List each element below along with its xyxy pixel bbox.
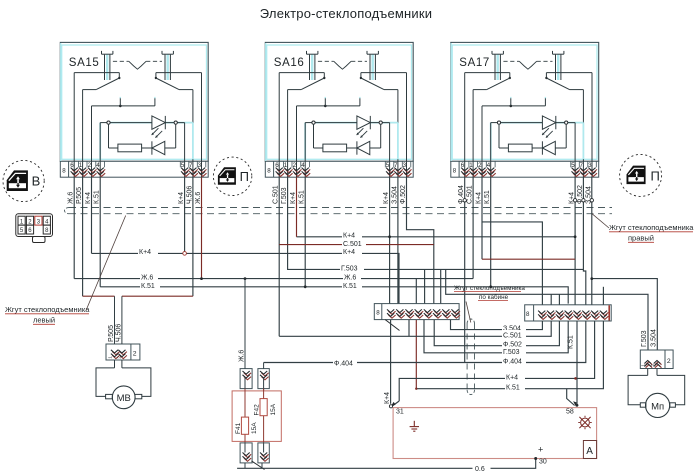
svg-text:А: А [586,446,593,457]
wire С.501 [279,321,551,336]
wire Ф.502 [434,320,559,346]
wire SA16 pin7 down to left strip pin2 [397,177,399,303]
svg-text:Р.505: Р.505 [76,187,83,204]
svg-text:К+4: К+4 [384,392,391,404]
svg-text:8: 8 [267,168,271,175]
svg-text:К+4: К+4 [343,249,355,256]
red harness label left [5,305,90,325]
switch SA16 [265,42,413,177]
red node circle SA15 pin5 on К+4 bus [183,252,187,256]
wire SA17 pin4 К.51 down [490,177,492,287]
motor МВ [96,360,151,409]
wire Г.503 lower [424,320,568,353]
fuse F41 [241,417,248,434]
bundle wires between strips [264,320,604,406]
wire SA17 pin3 З.504 down to right strip pin7 [591,177,593,306]
svg-text:Ф.502: Ф.502 [400,185,407,204]
svg-text:30: 30 [539,459,547,466]
svg-text:15А: 15А [251,422,258,434]
svg-text:15А: 15А [270,403,277,415]
svg-text:С.501: С.501 [273,185,280,204]
wire SA15 pin3 Ж.6 red down [201,177,203,278]
unit A box [393,408,597,466]
wire SA17 pin6 Ф.404 long down [464,177,466,362]
red harness label right [609,223,694,243]
ground symbol [410,421,419,431]
window icon circle P right [620,154,662,196]
lower connector cells [240,443,269,463]
svg-text:З.504: З.504 [651,329,658,347]
cab connector strip left [374,304,460,331]
wire Г.503 branch down at 424.6 [424,269,426,303]
svg-text:К+4: К+4 [343,233,355,240]
stub right strip pin1 up [482,222,542,306]
cab connector strip right [525,305,612,321]
red fuse box [232,391,281,442]
pin numbers and chevrons SA16 [267,162,406,175]
terminal arrowheads [391,402,396,406]
svg-text:К.51: К.51 [141,283,155,290]
svg-text:Г.503: Г.503 [641,330,648,347]
svg-text:К.51: К.51 [94,190,101,204]
stub right strip pin2 up [550,294,552,305]
bus labels on lines [138,231,526,392]
fuse labels [235,403,277,434]
stub right strip pin3 up [558,294,560,305]
svg-text:31: 31 [396,409,404,416]
svg-text:Ф.502: Ф.502 [577,185,584,204]
harness boundary dashed lines [69,208,612,214]
leader left [86,216,126,311]
wire SA15 pin6 Ж.6 down [73,177,75,278]
pin numbers and chevrons SA17 [453,162,592,175]
svg-text:SA15: SA15 [69,57,100,69]
svg-text:по кабине: по кабине [479,293,509,301]
svg-text:Р.505: Р.505 [108,325,115,342]
svg-text:К+4: К+4 [290,192,297,204]
svg-text:С.501: С.501 [503,332,522,339]
svg-text:0.6: 0.6 [475,466,485,473]
svg-text:левый: левый [33,316,55,325]
svg-text:3: 3 [37,219,41,225]
svg-text:5: 5 [20,228,24,234]
red wires [83,177,575,389]
junction SA16 pin4 on К.51 bus [304,285,307,288]
svg-text:1: 1 [108,356,113,359]
svg-text:Ч.506: Ч.506 [186,186,193,204]
svg-text:F41: F41 [235,422,242,434]
svg-text:+: + [538,445,543,455]
svg-text:8: 8 [526,311,530,318]
svg-text:Электро-стеклоподъемники: Электро-стеклоподъемники [260,6,432,21]
svg-text:Ф.404: Ф.404 [334,361,353,368]
svg-text:Г.503: Г.503 [281,187,288,204]
junction SA17 pin4 on К.51 bus [489,285,492,288]
svg-text:Г.503: Г.503 [341,265,358,272]
svg-text:К+4: К+4 [85,192,92,204]
svg-text:К+4: К+4 [506,374,518,381]
lamp symbol [578,416,591,429]
svg-text:2: 2 [28,219,32,225]
node Ф.502 harness pass circle [582,199,585,202]
svg-text:К+4: К+4 [476,192,483,204]
red SA17 pin2 link [482,258,575,260]
motor Мп [628,369,685,418]
svg-text:К+4: К+4 [569,192,576,204]
svg-text:2: 2 [667,358,671,365]
wire З.504 [451,320,543,330]
wire at 440.7 from Г.503 line to left strip pin7 [440,269,442,303]
svg-text:2: 2 [133,350,137,357]
svg-text:К.51: К.51 [343,283,357,290]
red harness label cab [454,285,525,301]
Г.503 lower run to Мп [446,269,648,350]
wire SA16 pin4 К.51 down [304,177,306,287]
junction SA17 pin5 on К+4 link [574,235,577,238]
svg-text:К.51: К.51 [568,335,575,349]
svg-text:2: 2 [116,356,121,359]
svg-text:2: 2 [650,364,655,367]
fuse F42 [260,399,267,416]
wire SA16 pin5 К+4 down through to left strip pin1 [389,177,391,303]
wire SA15 pin7 Ч.506 down [192,177,194,296]
svg-text:К+4: К+4 [139,249,151,256]
wire Ж.6 corner down to left strip pin4 [415,279,417,304]
wire SA16 pin3 jog down to left strip pin6 [407,177,434,303]
svg-text:58: 58 [566,409,574,416]
wire SA17 pin7 down to right strip pin6 [583,177,585,306]
node К+4 harness pass circle [573,199,576,202]
switch SA17 [451,42,599,177]
svg-text:К.51: К.51 [484,190,491,204]
svg-text:П: П [240,169,249,184]
wire SA15 pin5 К+4 down [184,177,186,251]
junction at unit A terminal 58 [576,404,579,407]
svg-text:Жгут стеклоподъемника: Жгут стеклоподъемника [454,285,525,292]
cab harness dashed capsule [467,319,474,394]
svg-text:МВ: МВ [117,393,131,404]
svg-text:8: 8 [376,310,380,317]
wire К.51 to unit 58 [576,321,578,406]
svg-text:4: 4 [45,219,49,225]
svg-text:С.501: С.501 [467,185,474,204]
svg-text:6: 6 [28,228,32,234]
wire SA17 pin2 down [481,177,483,259]
svg-text:Г.503: Г.503 [503,349,520,356]
bus Ж.6 long horizontal [74,278,473,280]
window icon circle B [3,160,44,201]
svg-text:К+4: К+4 [178,192,185,204]
svg-text:Ж.6: Ж.6 [239,350,246,362]
branch З.504 to Мп [592,279,658,350]
wire SA15 pin4 К.51 down [99,177,101,287]
wire SA16 pin1 Г.503 down [288,177,584,269]
svg-text:Ж.6: Ж.6 [68,192,75,204]
red Р.505 / Ч.506 horizontals [83,295,115,297]
rotated wire labels under SA blocks [68,185,658,404]
bottom wire 0.6 [237,459,536,469]
wire SA16 pin6 С.501 down to bundle [278,177,280,336]
upper connector cells [240,369,269,389]
svg-text:F42: F42 [253,404,260,416]
red С.501 bus [279,244,434,246]
svg-text:правый: правый [628,234,654,243]
bus К+4 upper (SA15 to left strip) [92,253,400,303]
junction К.51 wire on К+4 line [574,377,577,380]
wire К+4 lower [399,321,594,401]
wire Ф.404 [264,321,586,363]
svg-text:Ф.404: Ф.404 [503,359,522,366]
junction SA16 pin5 on К+4 link [388,235,391,238]
red wire left strip pin4 down to К.51 line [415,320,417,389]
svg-text:З.504: З.504 [391,186,398,204]
junction fuse F41 feed on Ж.6 bus [244,277,247,280]
svg-text:В: В [32,174,41,189]
motor Мп connector [640,350,673,369]
svg-text:Ф.404: Ф.404 [458,185,465,204]
wire К+4 to unit 31 [390,320,392,404]
svg-text:Жгут стеклоподъемника: Жгут стеклоподъемника [5,305,90,314]
8-pin plug symbol below B [16,214,53,243]
svg-text:К.51: К.51 [506,385,520,392]
wire К.51 lower [416,321,603,389]
junction З.504 branch to Мп [590,277,593,280]
svg-text:8: 8 [453,168,457,175]
svg-text:8: 8 [62,168,66,175]
svg-text:Жгут стеклоподъемника: Жгут стеклоподъемника [609,223,694,232]
node Ф.404 harness pass circle [463,199,466,202]
svg-text:Ч.506: Ч.506 [115,324,122,342]
svg-text:1: 1 [640,364,645,367]
wire SA16 pin2 К+4 red down [296,177,298,237]
svg-text:Мп: Мп [651,401,664,412]
bus К.51 long horizontal [100,287,568,304]
switch SA15 [60,42,208,177]
motor МВ connector [106,296,140,360]
wire SA17 pin5 down through dot to right strip pin5 [574,177,576,306]
bundle labels [502,323,526,332]
bus К+4 middle (SA16 red feed to SA17 pin5) [297,236,576,238]
svg-text:П: П [651,169,660,184]
pin numbers and chevrons SA15 [62,162,201,175]
junction SA15 pin3 on Ж.6 bus [200,277,203,280]
node З.504 harness pass circle [590,199,593,202]
wire С.501 SA17 pin1 down joins Ж.6 level [472,177,474,278]
svg-text:З.504: З.504 [586,186,593,204]
svg-text:1: 1 [20,219,24,225]
svg-text:К.51: К.51 [299,190,306,204]
window icon circle P middle [213,157,251,195]
svg-text:Ж.6: Ж.6 [195,192,202,204]
svg-text:SA16: SA16 [274,57,305,69]
wire SA15 pin2 К+4 down [91,177,93,253]
svg-text:К+4: К+4 [383,192,390,204]
svg-text:8: 8 [45,228,49,234]
wire SA15 pin1 Р.505 down [82,177,84,296]
stub right strip pin8 up [602,287,604,306]
К.51 diagonal to 58 [567,389,575,406]
svg-text:SA17: SA17 [459,57,490,69]
fuse block [232,279,281,470]
junction red wire on К.51 line [415,388,417,390]
